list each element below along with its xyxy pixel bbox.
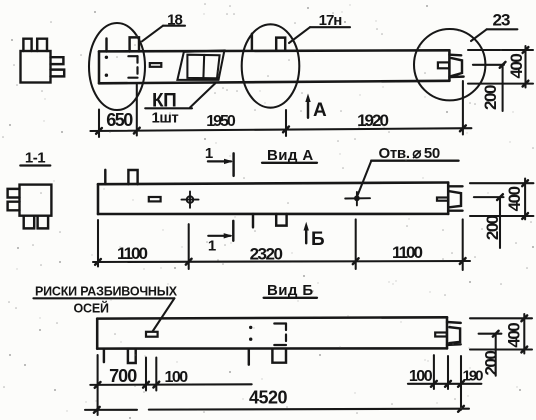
svg-text:700: 700 xyxy=(109,366,137,386)
bot ext middle (200) xyxy=(479,333,502,335)
svg-text:Вид Б: Вид Б xyxy=(267,282,314,299)
svg-text:1: 1 xyxy=(208,238,216,255)
bottom view beam outline xyxy=(97,317,447,348)
svg-text:Б: Б xyxy=(311,229,325,250)
mid view right end top bar xyxy=(448,185,462,187)
right end wedge bar xyxy=(438,62,449,68)
view direction arrow A xyxy=(307,99,309,118)
svg-text:1100: 1100 xyxy=(117,244,147,263)
svg-text:ОСЕЙ: ОСЕЙ xyxy=(74,301,109,316)
axis mark rectangle (mid view) xyxy=(149,197,161,201)
section symbol 1-1 (middle-left) xyxy=(8,185,52,229)
label Otv d50 xyxy=(358,161,372,196)
svg-text:200: 200 xyxy=(481,351,500,376)
extension verticals row1 xyxy=(98,110,100,138)
ext verticals bottom-left xyxy=(97,355,99,415)
mid ext bottom xyxy=(470,215,533,217)
embedded plate tab above beam left xyxy=(130,37,139,51)
svg-text:Отв. ⌀ 50: Отв. ⌀ 50 xyxy=(379,145,440,162)
extension line bottom xyxy=(468,83,533,85)
embedded plate tab above beam (mid view) xyxy=(128,170,137,184)
bot dim 400 vertical xyxy=(523,314,525,354)
mid ext middle (200) xyxy=(474,196,504,198)
detail circle 23 (right end) xyxy=(414,29,485,100)
bot ext top (400) xyxy=(470,317,532,319)
detail ellipse 18 (left end) xyxy=(89,23,145,110)
embedded plate tab above beam (ellipse 17n) xyxy=(276,38,285,50)
tick below beam left (bottom view) xyxy=(103,349,105,362)
extension line top (400) xyxy=(468,49,533,51)
strand dots (bottom view) xyxy=(249,326,252,329)
dim line 700/100 xyxy=(90,383,251,386)
svg-text:А: А xyxy=(313,100,327,121)
svg-text:400: 400 xyxy=(507,54,526,79)
axis mark rectangle (bottom view, riska) xyxy=(146,332,158,337)
hidden outline bracket (dashed) left xyxy=(128,55,137,57)
svg-text:200: 200 xyxy=(483,215,502,240)
detail ellipse 17n xyxy=(242,24,300,107)
svg-text:2320: 2320 xyxy=(250,245,283,264)
mid view right end cup xyxy=(450,191,461,207)
svg-text:100: 100 xyxy=(164,369,188,386)
lifting loop crosshair xyxy=(187,196,194,203)
dim line 400 vertical xyxy=(524,46,526,88)
svg-text:РИСКИ РАЗБИВОЧНЫХ: РИСКИ РАЗБИВОЧНЫХ xyxy=(35,285,178,299)
dim line 200 vertical xyxy=(502,65,504,111)
bottom view right end top bar xyxy=(447,321,461,324)
embedded tab below beam left (bottom view) xyxy=(128,349,136,363)
svg-text:1-1: 1-1 xyxy=(25,150,45,167)
mid ext verticals row2 xyxy=(97,220,99,267)
section symbol (column cross-section, top-left) xyxy=(21,39,65,83)
svg-text:400: 400 xyxy=(504,323,523,348)
svg-text:100: 100 xyxy=(409,368,433,385)
top view beam outline xyxy=(99,50,449,83)
svg-text:1: 1 xyxy=(205,145,213,162)
hole marker (Otv d50) xyxy=(354,195,360,201)
svg-text:23: 23 xyxy=(493,11,510,30)
bot dim 200 vertical xyxy=(495,334,497,376)
bottom view right end bottom bar xyxy=(447,343,461,346)
bottom view wedge bar xyxy=(435,333,447,337)
section mark 1 lower xyxy=(232,221,234,241)
mid view right end bottom bar xyxy=(448,209,462,211)
bottom view right end cup xyxy=(449,327,460,343)
hidden bracket dashed (bottom view) xyxy=(274,322,286,324)
axis mark rectangle (riska) top view xyxy=(150,63,162,67)
mid dim 200 vertical xyxy=(499,197,501,248)
middle view beam outline xyxy=(98,183,448,215)
dimension line row2 xyxy=(93,261,470,262)
svg-text:1шт: 1шт xyxy=(152,110,179,127)
dim line 100/190 xyxy=(408,383,482,385)
svg-text:Вид А: Вид А xyxy=(267,147,314,164)
right end bottom bar xyxy=(449,75,463,78)
mid view wedge bar xyxy=(437,198,448,201)
svg-text:200: 200 xyxy=(481,85,500,110)
embedded plate tab below beam (mid view) xyxy=(276,214,286,226)
embedded tab below beam mid (bottom view) xyxy=(272,349,286,363)
anchor tick above beam (ellipse 17n) xyxy=(251,34,253,50)
right end top bar xyxy=(449,53,461,56)
view direction arrow B xyxy=(305,227,307,243)
svg-text:4520: 4520 xyxy=(249,388,288,408)
anchor tick above beam (mid view) xyxy=(104,170,106,184)
extension line mid (200) xyxy=(473,64,504,66)
svg-text:190: 190 xyxy=(462,368,483,385)
consignment plate KP parallelogram xyxy=(177,51,224,80)
mid dim 400 vertical xyxy=(524,179,526,220)
svg-text:1950: 1950 xyxy=(206,113,236,130)
svg-text:400: 400 xyxy=(505,186,524,211)
svg-text:1100: 1100 xyxy=(392,243,422,262)
dimension line row1 xyxy=(90,128,471,131)
ext verticals bottom-right xyxy=(433,355,435,389)
bot ext bottom xyxy=(470,348,532,350)
tick below beam (mid view) xyxy=(252,214,254,227)
strand dots left xyxy=(105,56,108,59)
tick below beam mid (bottom view) xyxy=(248,349,250,365)
svg-text:650: 650 xyxy=(106,110,133,130)
right end cup detail xyxy=(451,58,462,76)
anchor tick above beam left xyxy=(105,39,107,52)
mid ext top (400) xyxy=(470,182,533,184)
dim line 4520 xyxy=(85,409,137,411)
